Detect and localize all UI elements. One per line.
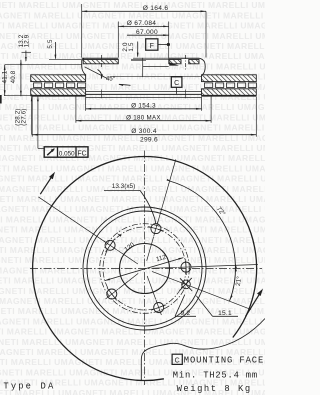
svg-text:MAGNETI MARELLI UMAGNETI MAREL: MAGNETI MARELLI UMAGNETI MARELLI UMAGNET… [0, 214, 265, 224]
svg-text:MAGNETI MARELLI UMAGNETI MAREL: MAGNETI MARELLI UMAGNETI MARELLI UMAGNET… [0, 265, 265, 275]
circle Ø120 dash-dot [100, 224, 190, 314]
right friction ring top plate [202, 75, 257, 82]
svg-text:MAGNETI MARELLI UMAGNETI MAREL: MAGNETI MARELLI UMAGNETI MARELLI UMAGNET… [0, 296, 265, 306]
bore interior ledge [143, 66, 169, 68]
dim 41.1/40.8 line [4, 65, 6, 96]
72deg dimension arc [170, 181, 236, 265]
hat top surface line [82, 57, 119, 59]
bolt hole centerline left (section) [101, 55, 103, 68]
bolt hole 1 (-74deg) Ø13.3 [151, 224, 161, 234]
bolt hole 5 (214deg) Ø13.3 [105, 240, 115, 250]
mounting face datum box C [172, 354, 182, 364]
dim 13.2/12.9 line and arrow [22, 51, 32, 53]
hat left edge with 45 deg chamfer [82, 58, 86, 75]
bore surface second line [131, 58, 169, 60]
horizontal centerline [30, 268, 262, 270]
bore interior vertical [142, 58, 144, 77]
dim 67.000 line [127, 34, 169, 36]
bolt hole 3 (70deg) Ø13.3 [154, 303, 164, 313]
datum F box [146, 39, 158, 50]
right friction ring bottom plate [202, 89, 257, 96]
radial line through upper-left hole extended to section arrow [38, 197, 105, 242]
bolt hole 4 (142deg) Ø13.3 [107, 289, 117, 299]
45deg arc with arrow [98, 70, 102, 79]
svg-text:15.1: 15.1 [218, 310, 232, 317]
bolt hole 2 (-2deg) Ø13.3 [181, 262, 191, 272]
small hole X mark [180, 278, 192, 291]
svg-text:MAGNETI MARELLI UMAGNETI MAREL: MAGNETI MARELLI UMAGNETI MARELLI UMAGNET… [0, 194, 265, 204]
dim 2.0/1.5 arrow [137, 42, 139, 57]
extension line disc bottom left [4, 95, 31, 97]
flatness frame box [44, 147, 88, 157]
second vertical dim line [20, 60, 22, 96]
svg-text:MAGNETI MARELLI UMAGNETI MAREL: MAGNETI MARELLI UMAGNETI MARELLI UMAGNET… [0, 51, 265, 61]
dim Ø180 MAX line [76, 120, 211, 122]
svg-text:MAGNETI MARELLI UMAGNETI MAREL: MAGNETI MARELLI UMAGNETI MARELLI UMAGNET… [0, 153, 265, 163]
svg-text:299.6: 299.6 [140, 137, 158, 144]
section direction arrow top-left [40, 176, 52, 195]
svg-text:MAGNETI MARELLI UMAGNETI MAREL: MAGNETI MARELLI UMAGNETI MARELLI UMAGNET… [0, 163, 265, 173]
svg-text:(27.6): (27.6) [21, 108, 28, 125]
bolt hole 4 radial centerline [119, 273, 139, 288]
radial extension right hole [192, 265, 258, 267]
svg-text:MAGNETI MARELLI UMAGNETI MAREL: MAGNETI MARELLI UMAGNETI MARELLI UMAGNET… [0, 31, 265, 41]
dim 112 diameter line with arrows [105, 258, 184, 281]
svg-text:67.000: 67.000 [136, 29, 158, 36]
dim Ø154.3 extension lines [85, 97, 87, 111]
dim Ø67.084 line [118, 25, 168, 27]
svg-text:12.9: 12.9 [24, 34, 31, 47]
bolt centerline ticks below section [101, 90, 103, 99]
datum F leader to bore axis [158, 44, 168, 46]
svg-text:41.1: 41.1 [2, 70, 9, 83]
far-side interior line mid [86, 90, 202, 92]
datum C box [171, 77, 182, 88]
svg-text:MOUNTING FACE: MOUNTING FACE [184, 355, 264, 365]
svg-text:Ø 164.6: Ø 164.6 [143, 5, 169, 12]
svg-text:45°: 45° [106, 76, 116, 83]
flatness symbol arrow [47, 149, 54, 155]
front view outer circle (OD) with break gap [33, 156, 257, 380]
svg-text:C: C [175, 357, 180, 364]
dim Ø300.4 line [32, 134, 256, 136]
left friction ring bottom plate [31, 89, 86, 96]
svg-text:FC: FC [77, 150, 86, 157]
bolt hole centerline right (section) [185, 55, 187, 71]
21deg dimension arc [230, 265, 236, 301]
radial extension for 72dim through top hole [158, 159, 176, 223]
svg-text:Ø 67.084: Ø 67.084 [127, 20, 157, 27]
mounting face line [86, 93, 202, 95]
brake disc section: left friction ring top plate [31, 75, 86, 82]
friction ring inner circle [87, 211, 202, 326]
svg-text:C: C [174, 80, 179, 87]
vent vanes between plates [34, 83, 42, 88]
svg-text:21°: 21° [234, 275, 243, 286]
svg-text:F: F [150, 43, 154, 50]
svg-text:Ø 154.3: Ø 154.3 [131, 102, 156, 109]
radial line at 21deg extended [152, 271, 251, 309]
svg-text:Min. TH25.4 mm: Min. TH25.4 mm [173, 370, 258, 380]
extension line hat plate top [49, 59, 83, 61]
hat top plate hatched left [83, 60, 118, 64]
flatness leader [37, 96, 39, 148]
svg-text:0.050: 0.050 [59, 150, 75, 157]
svg-text:Ø 300.4: Ø 300.4 [131, 128, 157, 135]
svg-text:40.8: 40.8 [10, 70, 17, 83]
disc bottom edge (thick) [31, 95, 86, 97]
far-side interior line upper [111, 75, 202, 77]
chamfer wedge at bore right [169, 62, 179, 65]
small locating hole at 21deg [182, 280, 191, 289]
45deg second arrow [119, 84, 131, 85]
svg-text:5.5: 5.5 [47, 39, 54, 49]
dim Ø154.3 line [86, 108, 202, 110]
leader 13.3 to top hole [140, 190, 155, 223]
scan edge artifact [0, 95, 2, 104]
section direction arrow bottom-right [246, 293, 261, 317]
bolt hole edges in hat plate [180, 60, 182, 64]
hat right step to ring [199, 58, 205, 75]
far-side interior line lower [86, 97, 202, 99]
dim Ø300.4 extension lines [31, 97, 33, 137]
vertical centerline [144, 151, 146, 386]
45deg leader line [85, 67, 108, 79]
dim Ø164.6 extension lines [81, 4, 83, 58]
extension line hat plate bottom [5, 64, 82, 66]
svg-text:13.3(x5): 13.3(x5) [112, 183, 135, 190]
bolt hole 1 radial centerline [147, 237, 154, 261]
dim 120 arrow on upper-left radial [117, 233, 122, 237]
dim Ø67.084 extension lines [117, 22, 119, 58]
bolt hole 3 radial centerline [147, 276, 156, 300]
dim (28.2) leader [31, 97, 33, 135]
svg-text:Weight 8 Kg: Weight 8 Kg [177, 384, 252, 394]
hat top plate hatched right-1 [169, 60, 181, 64]
hat top plate hatched right-2 [189, 60, 199, 64]
svg-text:1.5: 1.5 [128, 42, 135, 52]
dim Ø180 MAX extension lines [75, 97, 77, 123]
svg-text:MAGNETI MARELLI UMAGNETI MAREL: MAGNETI MARELLI UMAGNETI MARELLI UMAGNET… [0, 10, 265, 20]
svg-text:MAGNETI MARELLI UMAGNETI MAREL: MAGNETI MARELLI UMAGNETI MARELLI UMAGNET… [0, 276, 265, 286]
svg-text:MAGNETI MARELLI UMAGNETI MAREL: MAGNETI MARELLI UMAGNETI MARELLI UMAGNET… [0, 61, 265, 71]
svg-text:Ø 180 MAX: Ø 180 MAX [126, 114, 161, 121]
break line around text area [141, 319, 265, 381]
svg-text:9.2: 9.2 [181, 310, 191, 317]
bolt circle Ø112 dash-dot [103, 227, 186, 310]
hat outer circle [83, 207, 206, 330]
bore circle [120, 244, 170, 294]
dim 5.5 arrow [54, 42, 56, 59]
dim Ø164.6 line with arrows [82, 10, 206, 12]
bolt hole 2 radial centerline [153, 266, 178, 269]
svg-text:MAGNETI MARELLI UMAGNETI MAREL: MAGNETI MARELLI UMAGNETI MARELLI UMAGNET… [0, 327, 265, 337]
svg-text:MAGNETI MARELLI UMAGNETI MAREL: MAGNETI MARELLI UMAGNETI MARELLI UMAGNET… [0, 0, 265, 10]
bolt hole 5 radial centerline [117, 250, 138, 264]
svg-text:Type DA: Type DA [3, 382, 55, 392]
datum C leader [176, 87, 178, 94]
svg-text:MAGNETI MARELLI UMAGNETI MAREL: MAGNETI MARELLI UMAGNETI MARELLI UMAGNET… [0, 143, 265, 153]
